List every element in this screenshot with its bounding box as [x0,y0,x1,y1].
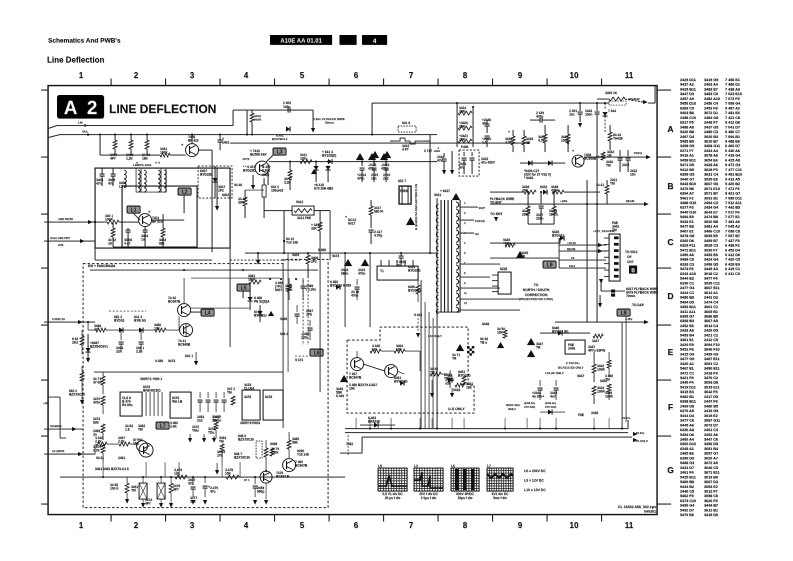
left column chain [101,376,105,385]
resistor 3424 [458,111,472,115]
column ticks [110,79,112,86]
arrows down [430,393,434,398]
resistor 3421 [458,139,472,143]
resistor 3439b [522,136,526,145]
hwire dashed 260 [230,259,300,261]
graybox L6 [310,349,323,356]
wire top bus LIN [57,124,233,126]
cap 2434b [443,153,445,157]
corridor verticals [420,280,422,428]
capacitor 2416 [385,162,387,166]
x-box 3491 [139,483,147,499]
resistor 3443 [592,386,596,395]
transistor 7441 [180,324,193,337]
resistor 3451 [160,153,170,157]
connector 6228b [377,266,418,280]
inductor 9411 [300,160,312,164]
row ticks [657,89,671,91]
verticals below bus [102,462,104,477]
warning tris left [371,151,379,158]
capacitor 2415 [373,162,375,166]
header black box blank [340,35,357,45]
resistor 3410 [243,197,247,206]
A2 block label [57,95,104,119]
wire bus into osc [211,166,213,252]
transistor 7460 [283,459,296,472]
left group 6463 [80,336,84,345]
graybox L5 [237,284,250,291]
EHT tap [460,206,478,208]
connector 6228 [498,272,511,294]
resistor 3406 [129,140,133,149]
resistor 3401 input [107,220,119,224]
diode row [448,378,452,383]
wire y372 [94,371,283,373]
resistor 3411 [288,170,292,179]
coil 9445 [505,243,515,247]
caps 2463 2461 [120,330,122,340]
wire osc to EW [229,168,231,347]
capacitor 2439 [539,118,541,123]
cap 2458 [254,477,256,484]
dashed box F406 [459,150,479,176]
tri 3445 [516,251,524,258]
wire PH2 arrow [584,156,650,158]
diode 7444 [604,103,606,110]
wire x320 [319,240,321,392]
capacitor 2409 loop [233,109,313,111]
resistor 3479b [264,448,268,457]
DAF area [601,290,625,292]
dashed box US ONLY [347,327,474,413]
graybox L2 [178,188,191,195]
capacitor 2408 [127,228,129,230]
vert 184 [183,205,185,213]
wire main hbus VAX [60,134,437,136]
wire y278 [191,277,280,279]
wire collector down [211,150,213,166]
diode 6484 [258,311,263,315]
inductor 0405 [124,170,126,188]
wires in box [363,364,385,371]
resistor 3447b [593,334,603,338]
header black box A10E [270,35,332,45]
hbus step left [361,437,363,453]
wire mid right [490,257,559,259]
diode 6410 pair [314,166,319,170]
component 6227 [399,186,411,204]
connector TO CRT [609,234,620,281]
resistor 3439c [543,134,547,143]
component 9416 [398,126,416,132]
wire transistors [178,317,180,331]
tri 6437 [452,193,460,200]
bus BEAM arrow y204 [490,203,645,205]
resistor 3476h [175,475,187,479]
transistor 7408 BF423 [186,144,199,157]
wire x437 long [436,330,438,429]
caps 2491 2443 [579,103,581,111]
dashed hline [109,310,146,312]
capacitor 2402 [219,135,221,141]
capacitor 2417 [369,229,374,231]
junction 6413 [283,240,285,242]
resistor 3461 [249,280,261,284]
black box B [629,266,637,274]
wire x345 [344,253,346,327]
graybox L8 [617,309,630,316]
box oscillator outer [95,168,230,248]
resistor 3442 [592,364,596,373]
resistor 3478c [226,475,239,479]
transistor 7401 BF819 [139,214,152,227]
arrows beam rows [559,244,606,246]
resistor 3440 [566,134,570,143]
cap 2416b [356,279,358,285]
resistor 3438 [511,136,515,145]
resistor 3436 20K [524,190,536,194]
EW right boxes [242,390,260,420]
capacitor 3404b [101,168,103,174]
diode 6452 [548,410,552,415]
resistor 3406b [306,255,310,264]
wire x370 [369,253,371,327]
resistor 3482 US [430,372,441,376]
resistor 3450 [503,330,507,338]
checker block [467,346,469,348]
diode 6460 [336,285,340,290]
capacitor 2410 [485,135,490,137]
wire collector bus y161 [269,161,437,163]
diode 6446 [558,331,562,336]
wire x283 vertical [282,263,284,428]
verticals upper to bus [355,418,357,429]
resistor 3460 [155,328,166,332]
resistor 2472 [231,396,235,405]
cap 2430 [400,253,402,256]
resistor 3466in [96,328,106,332]
resistor 3409 [250,113,254,122]
resistor 3433 [394,138,421,144]
resistor 3476b [169,483,173,493]
junction dots [99,134,101,136]
resistor 3490 [287,440,291,449]
transistor 7442 [178,304,191,317]
dashed box 6407 [198,166,232,198]
resistor 2403 [162,214,164,228]
hbus 437 [362,436,632,438]
resistor 3498 [125,483,129,493]
resistor 3446b [370,349,381,353]
caps 3435 2437 3438 row [527,192,529,206]
capacitor 2433 [471,152,473,156]
diode 6433 [543,190,547,195]
diodes 6439 6440 [528,161,532,166]
caps nonusa [539,380,541,386]
fuse 9412 [292,206,314,215]
vert wire x430 [429,135,431,254]
capacitor 2436 [486,120,488,124]
tri 2419 [361,259,369,266]
caps 2423 2422 [619,150,621,156]
cap 2462 [449,370,451,374]
border frame [48,86,657,515]
resistor 3405 [145,140,149,149]
input NON VA [44,321,95,323]
resistor 3417 [369,206,373,215]
transistor 7403 EW out [139,443,153,457]
hwire 253 [245,252,437,254]
fuse box F433 [565,340,585,354]
waveform scope grids [378,464,407,500]
graybox L1 [127,206,140,213]
transistor 7476 [260,471,272,483]
dashed 9473 [295,355,308,357]
graybox L9 [543,261,556,268]
arrows down [251,185,255,190]
flyback taps right [460,263,500,265]
graybox L7 [156,422,169,429]
inductor 6410 [262,185,266,197]
resistor 3432 [601,152,605,160]
wire main hbus y143 [230,142,530,144]
resistor 3482b [214,422,218,430]
resistor 3404 [113,140,117,149]
header black box 4 [362,35,387,45]
wire x330 [329,211,331,261]
diode 6414 BY228 [328,159,332,164]
main hbus 432 [345,432,628,434]
capacitor 3403 [144,227,146,231]
tris 3447 [527,338,535,345]
warning tri big [406,217,415,225]
tri 3449 [340,375,348,382]
diode 6483 bottom [374,423,378,428]
arrows dn [442,170,446,175]
warning triangles x3 [356,153,364,160]
wire left rail rows [558,238,560,268]
box oscillator inner [122,186,197,247]
arrow 217 [215,470,219,475]
caps row EW [199,392,201,398]
resistor 3404b [394,349,405,353]
tri 2418 [344,259,352,266]
transistor 7404 [385,365,398,378]
tri 3471 [456,344,464,351]
inner top wire [90,269,318,271]
resistor 3420 [458,126,472,130]
transistor 7410 BU508 [255,161,269,175]
diode 6445 [560,236,564,241]
long verticals right [586,180,588,322]
resistors 3446 2407 [96,442,107,446]
tri small [311,169,317,174]
capacitor 3405b [112,168,114,174]
vertical pair to bus [621,322,623,429]
wire x288 vertical [287,253,289,372]
wire top loop [372,102,609,104]
graybox L3 [273,148,286,155]
line J46V [555,321,648,323]
ladder rails [456,103,458,147]
diode 6486 [248,297,253,301]
resistor 3438 470K [552,190,564,194]
input LBRVE [44,453,95,455]
resistor 3413 [318,222,322,231]
x-box 3476 [157,483,165,499]
transistor 7407 [351,358,364,371]
cap 2479 [204,477,206,483]
dashed verticals [302,280,304,345]
diode 6401 [286,127,290,132]
dashed box EW PANORAMA [83,259,328,507]
left input 2 [44,240,95,242]
emitter bus y477 [60,476,345,478]
resistor 3402 [111,228,115,237]
capacitor 2414 [361,162,363,166]
transistor 7438 [572,155,584,167]
resistor 3409 1K [609,97,625,101]
input 429 [44,428,83,430]
resistor 6443 [608,132,612,141]
resistor 3451 US [462,376,466,385]
cap 2467 [192,477,194,485]
graybox L4 [201,309,214,316]
main hbus 428 [345,428,628,430]
capacitor 2434 [463,152,465,156]
